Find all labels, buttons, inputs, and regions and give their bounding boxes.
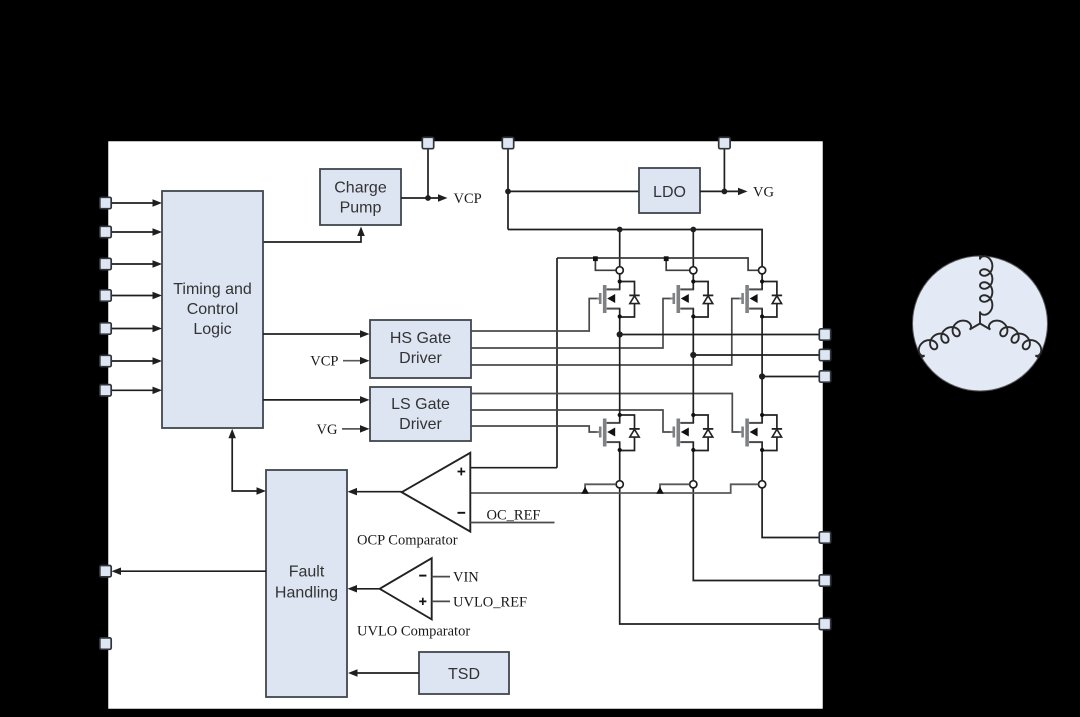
svg-text:LS Gate: LS Gate	[391, 396, 450, 413]
svg-text:Fault: Fault	[289, 564, 325, 581]
svg-text:UVLO_REF: UVLO_REF	[453, 595, 527, 611]
svg-text:VCP: VCP	[454, 191, 482, 207]
svg-text:Driver: Driver	[399, 350, 442, 367]
svg-text:OCP Comparator: OCP Comparator	[357, 533, 458, 549]
svg-text:Driver: Driver	[399, 416, 442, 433]
svg-text:Control: Control	[187, 301, 239, 318]
svg-text:HS Gate: HS Gate	[390, 330, 451, 347]
svg-text:VG: VG	[753, 185, 774, 201]
svg-text:VCP: VCP	[310, 354, 338, 370]
svg-text:Pump: Pump	[340, 200, 382, 217]
svg-text:Logic: Logic	[193, 321, 231, 338]
svg-text:VIN: VIN	[453, 570, 479, 586]
svg-text:TSD: TSD	[448, 666, 480, 683]
svg-text:Timing and: Timing and	[173, 281, 252, 298]
svg-text:Charge: Charge	[334, 180, 387, 197]
svg-text:OC_REF: OC_REF	[487, 508, 541, 524]
svg-text:VG: VG	[317, 422, 338, 438]
svg-text:LDO: LDO	[653, 184, 686, 201]
svg-text:Handling: Handling	[275, 585, 338, 602]
svg-text:UVLO Comparator: UVLO Comparator	[357, 624, 470, 640]
